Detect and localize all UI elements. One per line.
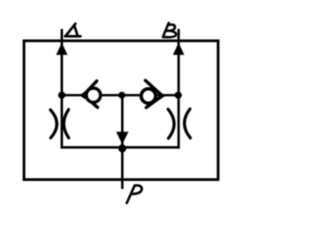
flow arrow port B (up): [173, 43, 184, 55]
label B: [163, 23, 176, 37]
throttle (orifice) left, right arc: [64, 110, 69, 138]
node P junction: [118, 144, 126, 152]
wire: P vertical line: [121, 95, 123, 189]
check valve left: ball: [86, 88, 100, 102]
check valve right: ball: [141, 89, 155, 103]
label P: [127, 185, 142, 203]
valve envelope (outer rectangle): [24, 41, 218, 180]
throttle (orifice) right, left arc: [168, 109, 174, 138]
node center junction: [118, 92, 125, 99]
check valve right: seat vertex wedge: [160, 92, 166, 100]
wire: bottom rail to P: [61, 146, 180, 148]
wire: port A vertical line: [61, 29, 63, 149]
label A: [65, 24, 81, 37]
node A-rail junction: [58, 92, 65, 99]
flow arrow port A (up): [56, 43, 67, 55]
wire: horizontal rail between nodes: [62, 94, 179, 96]
check valve right: seat: [145, 80, 162, 107]
flow arrow P line (down): [116, 132, 128, 144]
throttle (orifice) left, left arc: [50, 110, 56, 138]
check valve left: seat vertex wedge: [79, 91, 85, 99]
wire: port B vertical line: [177, 29, 179, 149]
check valve left: seat: [83, 81, 97, 107]
throttle (orifice) right, right arc: [184, 109, 190, 138]
node B-rail junction: [175, 92, 182, 99]
